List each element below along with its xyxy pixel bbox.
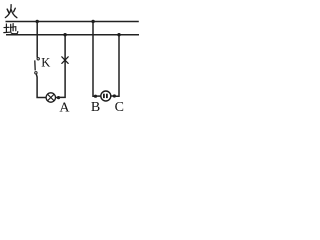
wire: lamp to junction: [56, 97, 60, 99]
label 地 (earth wire): [4, 24, 18, 34]
wire: stub to socket: [96, 95, 101, 97]
node: junction dot left of socket: [94, 95, 97, 98]
svg-text:A: A: [59, 100, 70, 115]
node: junction dot wire3 on live wire: [91, 20, 94, 23]
node: junction dot wire4 on earth wire: [117, 33, 120, 36]
wire: wire1 below switch down and corner: [36, 74, 45, 98]
earth wire N: [6, 34, 139, 36]
svg-text:K: K: [41, 56, 50, 70]
wire: wire1 from live wire down to switch: [36, 22, 38, 58]
wire: junction to corner and wire2 up to earth wire: [59, 35, 66, 98]
socket (circle with two bars): [101, 91, 111, 101]
svg-text:C: C: [115, 100, 124, 115]
node: junction dot wire2 on earth wire: [63, 33, 66, 36]
break mark X on wire2: [62, 57, 68, 64]
node: junction dot right of socket: [113, 94, 116, 97]
node: junction dot wire1 on live wire: [36, 20, 39, 23]
wire: corner and wire4 up to earth wire: [114, 35, 119, 96]
switch K: [35, 58, 40, 74]
node: junction dot right of lamp: [57, 96, 60, 99]
label 火 (live wire): [5, 5, 17, 18]
wire: socket to right junction: [111, 95, 115, 97]
lamp A (circle with X): [46, 93, 55, 102]
live wire L: [6, 21, 139, 23]
wire: wire3 from live wire down to socket corner: [93, 22, 96, 97]
svg-text:B: B: [91, 100, 100, 115]
